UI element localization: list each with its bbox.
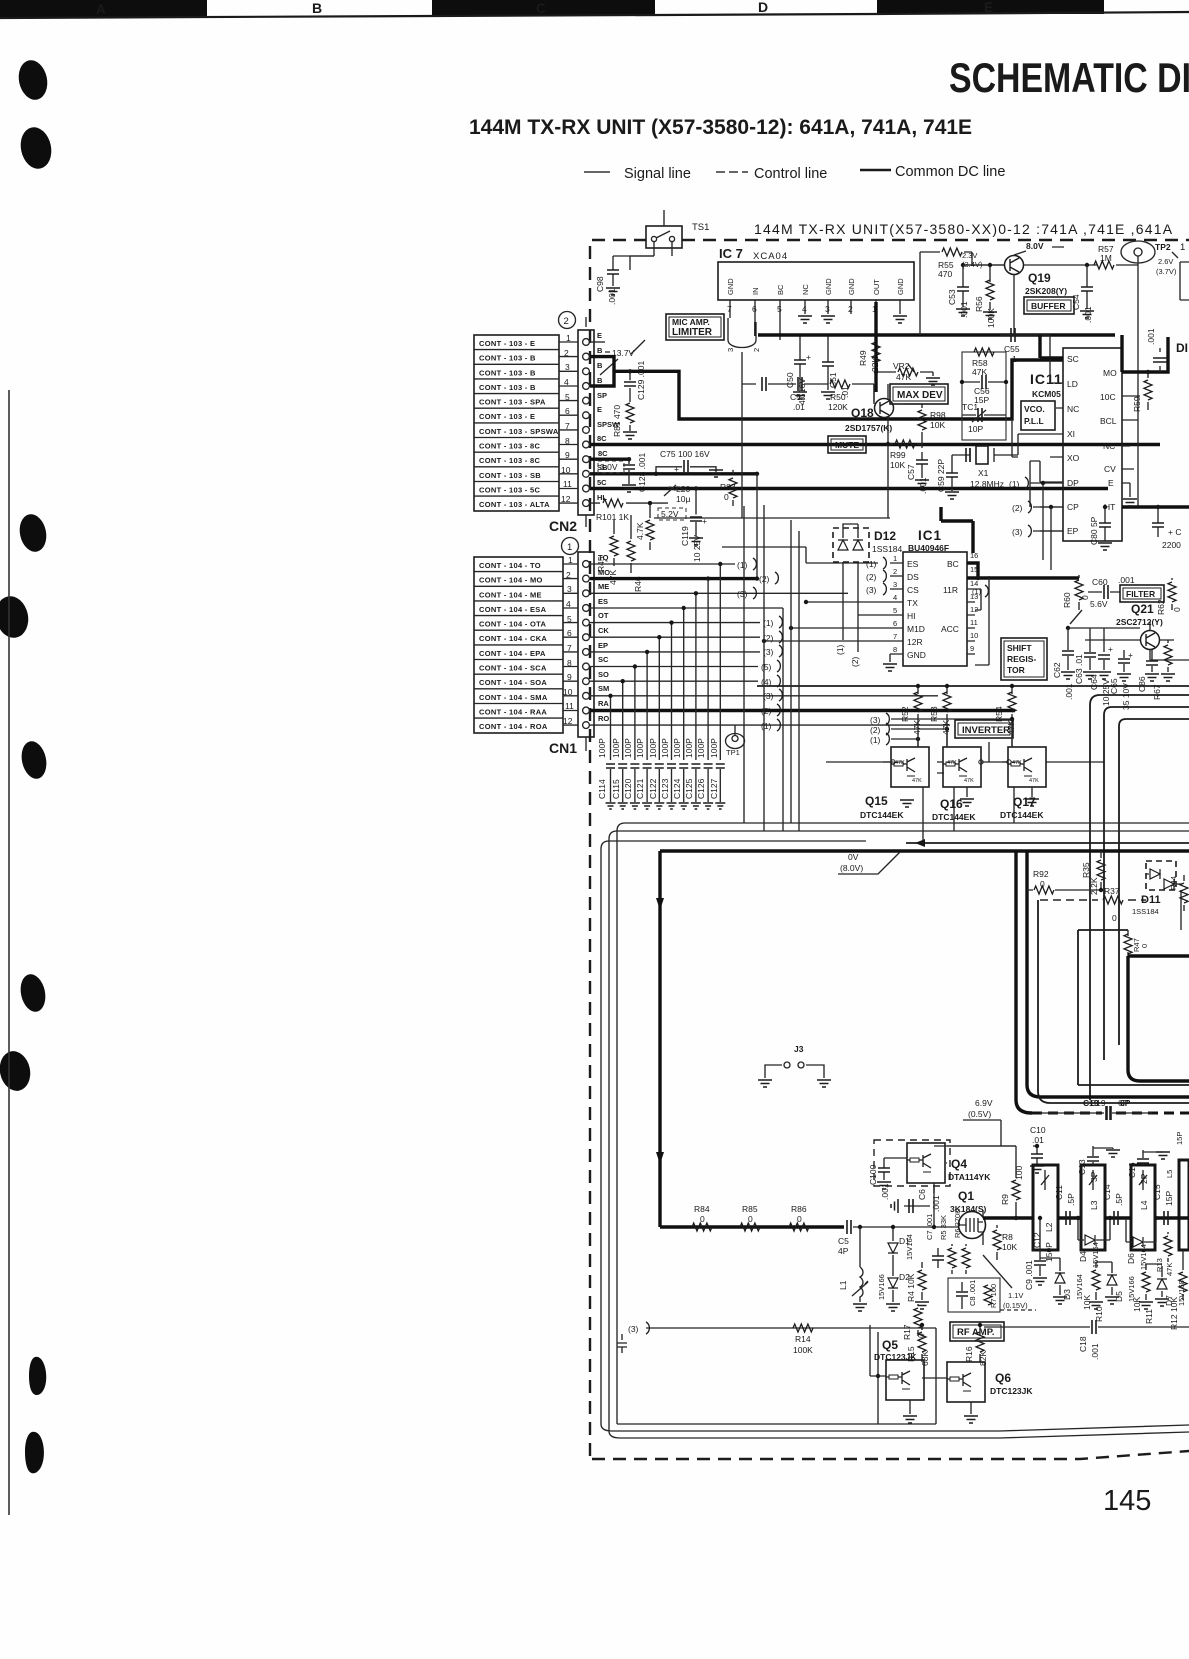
transistor Q1 — [950, 1189, 987, 1245]
svg-text:OUT: OUT — [872, 279, 881, 295]
connector CN1 pin numbers — [563, 555, 574, 726]
svg-text:IN: IN — [751, 288, 760, 296]
svg-text:CN2: CN2 — [549, 518, 577, 534]
wire Q5 Q6 links — [870, 1325, 922, 1376]
supply rail 8V — [757, 685, 1189, 687]
cut component right edge top — [1172, 242, 1189, 300]
resistor R14 — [793, 1324, 813, 1355]
svg-text:12.8MHz: 12.8MHz — [970, 479, 1004, 489]
IC PLL U11 — [1030, 348, 1122, 541]
transistor Q15 — [860, 722, 929, 820]
svg-text:INVERTER: INVERTER — [962, 725, 1010, 736]
svg-text:EP: EP — [1067, 526, 1079, 536]
svg-text:4: 4 — [893, 593, 897, 602]
svg-text:1: 1 — [1180, 242, 1185, 253]
base bias line — [646, 1328, 936, 1424]
svg-text:XI: XI — [1067, 429, 1075, 439]
svg-text:15P: 15P — [1164, 1191, 1174, 1206]
wire SC thick into pin — [1040, 335, 1063, 358]
svg-text:SP: SP — [597, 391, 607, 400]
svg-text:GND: GND — [847, 278, 856, 295]
mic coupling shape — [726, 318, 761, 352]
svg-text:Q6: Q6 — [995, 1371, 1011, 1385]
svg-text:L2: L2 — [1044, 1222, 1054, 1232]
resistor R60 — [1062, 575, 1090, 610]
svg-text:CONT - 103 - B: CONT - 103 - B — [479, 368, 536, 377]
svg-text:REGIS-: REGIS- — [1007, 654, 1036, 664]
svg-text:.5P: .5P — [1114, 1193, 1124, 1206]
svg-text:C64: C64 — [1089, 674, 1099, 690]
resistor R15 — [906, 1323, 930, 1366]
svg-text:DTA114YK: DTA114YK — [948, 1172, 991, 1182]
IC1 left pin names — [907, 559, 926, 660]
capacitor C10 — [1030, 1125, 1046, 1173]
svg-text:ES: ES — [907, 559, 919, 569]
diode D3 — [1053, 1258, 1084, 1304]
legend signal line sample — [584, 171, 610, 173]
svg-text:R98: R98 — [930, 410, 946, 420]
capacitor C59 — [936, 455, 959, 499]
resistor R46 — [627, 515, 643, 592]
svg-text:IC 7: IC 7 — [719, 246, 743, 261]
resistor R11 — [1132, 1264, 1154, 1324]
CN1 bracket terminals — [737, 558, 782, 731]
svg-text:E: E — [597, 405, 602, 414]
svg-text:0: 0 — [1040, 879, 1045, 889]
svg-text:C80 5P: C80 5P — [1089, 516, 1099, 545]
svg-text:C16: C16 — [1127, 1162, 1137, 1178]
svg-text:SM: SM — [598, 684, 609, 693]
diode D2 — [877, 1265, 910, 1311]
svg-text:R84: R84 — [694, 1204, 710, 1214]
svg-text:3: 3 — [565, 362, 570, 372]
VCO bottom dashed wall — [1032, 1112, 1189, 1115]
IC7 gnd symbols — [798, 316, 907, 323]
diode D1 — [888, 1225, 914, 1265]
svg-text:D5: D5 — [1114, 1291, 1124, 1302]
svg-text:VCO.: VCO. — [1024, 404, 1045, 414]
supply branch arrow — [906, 839, 1189, 847]
svg-text:TOR: TOR — [1007, 665, 1025, 675]
svg-text:10K: 10K — [1002, 1242, 1017, 1252]
connector CN2 pin numbers — [561, 333, 572, 504]
svg-text:C9 .001: C9 .001 — [1024, 1260, 1034, 1290]
capacitor C50 — [785, 335, 811, 405]
svg-text:Q1: Q1 — [958, 1189, 974, 1203]
svg-text:.001: .001 — [959, 301, 969, 318]
svg-text:GND: GND — [896, 278, 905, 295]
svg-text:.001: .001 — [1083, 306, 1093, 323]
control dash into Q4 — [874, 1140, 950, 1186]
main DC rail bottom run — [660, 1225, 844, 1228]
svg-text:MIC AMP.: MIC AMP. — [672, 317, 710, 327]
electrolytic 2200 right edge — [1152, 505, 1181, 550]
svg-text:R8: R8 — [1002, 1232, 1013, 1242]
resistor R6 — [953, 1209, 970, 1274]
svg-text:(8.0V): (8.0V) — [840, 863, 863, 873]
svg-text:100P: 100P — [696, 738, 706, 758]
svg-text:BCL: BCL — [1100, 416, 1117, 426]
svg-text:Q4: Q4 — [951, 1157, 967, 1171]
wire HL row12 — [590, 502, 668, 504]
wire Q15 collector drop — [922, 817, 924, 841]
svg-text:(1): (1) — [761, 721, 772, 731]
junction dots CN2 buses — [627, 369, 759, 505]
svg-text:2: 2 — [893, 567, 897, 576]
svg-text:CONT - 104 - SCA: CONT - 104 - SCA — [479, 664, 547, 673]
resistor R59 — [1132, 370, 1152, 412]
svg-text:C10: C10 — [1030, 1125, 1046, 1135]
svg-text:X1: X1 — [978, 468, 989, 478]
svg-text:L1: L1 — [838, 1280, 848, 1290]
filter tank T1 L2 — [1032, 1165, 1058, 1262]
svg-text:CP: CP — [1067, 502, 1079, 512]
svg-text:NC: NC — [1067, 404, 1079, 414]
svg-text:DI: DI — [1176, 341, 1188, 355]
svg-text:10 25V: 10 25V — [692, 535, 702, 562]
svg-text:(5): (5) — [761, 662, 772, 672]
transistor Q17 — [1000, 722, 1046, 820]
svg-text:82K: 82K — [978, 1351, 988, 1366]
resistor R84 — [692, 1204, 712, 1231]
resistor R85 — [740, 1204, 760, 1231]
transistor Q5 — [870, 1338, 924, 1423]
svg-text:+: + — [674, 464, 679, 474]
unit boundary dashed bottom — [592, 1451, 1189, 1459]
wire 5C bus row11 — [590, 487, 1108, 490]
svg-text:M1D: M1D — [907, 624, 925, 634]
svg-text:C54: C54 — [1071, 294, 1081, 310]
svg-text:TP1: TP1 — [726, 748, 740, 757]
svg-text:0: 0 — [1140, 944, 1149, 948]
svg-text:68K: 68K — [920, 1351, 930, 1366]
wire TQ row1 — [590, 563, 735, 565]
svg-text:11: 11 — [970, 618, 978, 627]
svg-text:LIMITER: LIMITER — [672, 327, 713, 338]
svg-text:RF AMP.: RF AMP. — [957, 1327, 994, 1338]
wire Q4 collector run — [946, 1146, 1016, 1163]
svg-text:C75 100 16V: C75 100 16V — [660, 449, 710, 459]
svg-text:NC: NC — [1103, 441, 1115, 451]
svg-text:100P: 100P — [672, 738, 682, 758]
capacitor C11 — [1054, 1185, 1076, 1225]
legend control line sample — [716, 171, 748, 173]
resistor R53 — [929, 684, 951, 735]
capacitor C6 — [891, 1186, 941, 1229]
svg-text:(2): (2) — [1012, 503, 1023, 513]
bracket terminals IC11 DP CP EP — [1009, 477, 1031, 537]
svg-text:C62: C62 — [1052, 662, 1062, 678]
svg-text:CV: CV — [1104, 464, 1116, 474]
svg-text:0: 0 — [797, 1214, 802, 1224]
capacitor C86 — [1137, 650, 1159, 692]
svg-text:5: 5 — [893, 606, 897, 615]
svg-text:OT: OT — [598, 611, 609, 620]
resistor R62 — [1156, 578, 1182, 615]
svg-text:R49: R49 — [858, 350, 868, 366]
wire B bus rows2-4 — [590, 357, 1063, 419]
IC11 right pin labels — [1100, 368, 1117, 512]
svg-text:3: 3 — [726, 348, 735, 352]
circled 2 — [559, 312, 576, 329]
wire XI XO to crystal — [1012, 419, 1043, 507]
wire 8C row9 — [590, 458, 629, 461]
thick wire MO pin — [1122, 335, 1168, 372]
filter tank T4 L5 cut — [1165, 1132, 1189, 1250]
diode D6 — [1126, 1237, 1152, 1270]
voltage 3.0V — [598, 461, 624, 473]
svg-text:6P: 6P — [1118, 1098, 1129, 1108]
svg-text:8C: 8C — [598, 449, 608, 458]
svg-text:.001: .001 — [607, 288, 617, 305]
svg-text:2: 2 — [752, 348, 761, 352]
svg-text:6: 6 — [567, 628, 572, 638]
transistor Q19 — [965, 256, 1098, 336]
capacitor C15 — [1152, 1184, 1174, 1225]
svg-text:15V164: 15V164 — [1139, 1244, 1148, 1270]
svg-text:100P: 100P — [623, 738, 633, 758]
filter tank T2 L3 — [1081, 1165, 1105, 1250]
resistor R44 — [1169, 875, 1188, 911]
resistor R5 — [939, 1215, 956, 1274]
resistor R47 — [1124, 930, 1149, 956]
svg-text:10K: 10K — [1132, 1297, 1142, 1312]
IC1 gnd — [883, 654, 897, 671]
svg-text:C: C — [536, 1, 546, 16]
box FILTER — [1120, 585, 1164, 602]
resistor 4.7K vertical label — [635, 503, 654, 550]
svg-text:E: E — [1108, 478, 1114, 488]
wire Q4 top — [934, 1145, 1016, 1147]
index tab bar C — [432, 0, 655, 16]
wire EP row7 — [590, 651, 760, 653]
page fold line — [8, 390, 10, 1515]
svg-text:BU40946F: BU40946F — [908, 543, 949, 553]
svg-text:GND: GND — [824, 278, 833, 295]
svg-text:C86: C86 — [1137, 676, 1147, 692]
svg-text:Q16: Q16 — [940, 797, 963, 811]
resistor R37 — [1103, 886, 1123, 923]
voltage 1.1V note — [983, 1255, 1036, 1310]
svg-text:DS: DS — [907, 572, 919, 582]
svg-text:0: 0 — [1080, 595, 1090, 600]
circled 1 — [562, 538, 579, 555]
svg-text:.001: .001 — [1064, 683, 1074, 700]
capacitor C9 — [1024, 1218, 1047, 1290]
svg-text:SC: SC — [598, 655, 609, 664]
svg-text:Q21: Q21 — [1131, 602, 1154, 616]
svg-text:Q17: Q17 — [1013, 795, 1036, 809]
svg-text:(3): (3) — [737, 589, 748, 599]
svg-text:CONT - 104 - TO: CONT - 104 - TO — [479, 561, 541, 570]
wire RA row11 — [590, 709, 1015, 712]
test point TP1 — [726, 725, 745, 757]
svg-text:C5: C5 — [838, 1236, 849, 1246]
svg-text:6.9V: 6.9V — [975, 1098, 993, 1108]
svg-text:0: 0 — [1172, 607, 1182, 612]
wire SC row8 — [590, 666, 758, 668]
wire E row1 — [589, 341, 605, 343]
svg-text:HI: HI — [907, 611, 916, 621]
box MUTE — [828, 436, 866, 453]
IC11 pin stubs left — [1040, 383, 1063, 531]
svg-text:(2): (2) — [761, 706, 772, 716]
svg-text:144M TX-RX UNIT(X57-3580-XX)0-: 144M TX-RX UNIT(X57-3580-XX)0-12 :741A ,… — [754, 221, 1173, 237]
svg-text:(3.7V): (3.7V) — [1156, 267, 1177, 276]
wire Q21 emitter rail — [1068, 628, 1189, 660]
svg-text:6: 6 — [893, 619, 897, 628]
capacitors C114-C127 100P — [597, 738, 725, 809]
svg-text:C57: C57 — [906, 464, 916, 480]
svg-text:C123: C123 — [660, 778, 670, 799]
svg-text:R44: R44 — [1169, 876, 1178, 890]
transistor Q16 — [932, 722, 981, 822]
svg-text:ACC: ACC — [941, 624, 959, 634]
svg-text:C7 .001: C7 .001 — [925, 1214, 934, 1240]
resistor R8 — [993, 1225, 1017, 1260]
capacitor C60 — [1088, 575, 1135, 599]
svg-text:(3): (3) — [866, 585, 877, 595]
control dashed R37 line — [1040, 899, 1146, 901]
svg-text:B: B — [597, 361, 603, 370]
unit boundary dashed left — [589, 246, 591, 1459]
capacitor C54 — [1071, 265, 1094, 323]
wire 8C bus row8 — [590, 443, 1160, 446]
svg-text:2200: 2200 — [1162, 540, 1181, 550]
svg-text:10C: 10C — [1100, 392, 1116, 402]
svg-text:100P: 100P — [635, 738, 645, 758]
svg-text:D: D — [758, 0, 768, 15]
svg-text:CONT - 104 - ME: CONT - 104 - ME — [479, 590, 542, 599]
box BUFFER — [1024, 297, 1074, 314]
svg-text:(3): (3) — [870, 715, 881, 725]
wire MO row2 — [590, 577, 757, 580]
svg-text:C127: C127 — [709, 778, 719, 799]
svg-text:R5 33K: R5 33K — [939, 1215, 948, 1240]
svg-text:1SS184: 1SS184 — [1132, 907, 1159, 916]
svg-text:R67: R67 — [1152, 684, 1162, 700]
resistor R12 — [1169, 1264, 1187, 1330]
capacitor C13 — [1077, 1146, 1120, 1182]
resistor R99 — [886, 440, 922, 470]
svg-text:R56: R56 — [974, 296, 984, 312]
box MAX DEV — [890, 384, 948, 404]
svg-text:120K: 120K — [828, 402, 848, 412]
svg-text:+: + — [806, 352, 811, 362]
svg-text:MUTE: MUTE — [835, 440, 859, 450]
svg-text:.001: .001 — [918, 477, 928, 494]
svg-text:R81 470: R81 470 — [612, 405, 622, 437]
svg-text:2: 2 — [564, 316, 569, 327]
svg-text:2P: 2P — [1139, 1173, 1149, 1184]
svg-text:9: 9 — [567, 672, 572, 682]
svg-text:CONT - 103 - ALTA: CONT - 103 - ALTA — [479, 500, 550, 509]
svg-text:D3: D3 — [1062, 1289, 1072, 1300]
junction dots inverter rows — [891, 717, 1014, 764]
svg-text:R16: R16 — [964, 1346, 974, 1362]
svg-text:47K: 47K — [1012, 760, 1022, 766]
svg-text:.001: .001 — [1146, 328, 1156, 345]
svg-text:0: 0 — [724, 492, 729, 502]
svg-text:1SS184: 1SS184 — [872, 544, 903, 554]
binding blob 8 — [29, 1357, 46, 1395]
capacitor C57 — [906, 452, 929, 494]
return line 3 — [601, 841, 1189, 1431]
svg-text:SC: SC — [1067, 354, 1079, 364]
resistor R67 — [1152, 640, 1175, 700]
wires inverter input rows — [826, 719, 1104, 773]
svg-text:Q5: Q5 — [882, 1338, 898, 1352]
inner screen box lid — [1078, 930, 1189, 1085]
IC1 pin numbers — [893, 551, 978, 654]
bypass cap column drops — [611, 564, 721, 760]
svg-text:DTC123JK: DTC123JK — [990, 1386, 1033, 1396]
inner screen box — [1128, 956, 1189, 1081]
IC1 pin stubs — [764, 563, 981, 654]
connector CN2 table — [474, 335, 559, 511]
svg-text:47K: 47K — [947, 760, 957, 766]
svg-text:R101 1K: R101 1K — [596, 512, 629, 522]
svg-text:R99: R99 — [890, 450, 906, 460]
svg-text:47K: 47K — [1165, 1263, 1174, 1276]
capacitor C5 — [838, 1220, 958, 1256]
svg-text:R14: R14 — [795, 1334, 811, 1344]
svg-text:CONT - 103 - 5C: CONT - 103 - 5C — [479, 486, 540, 495]
svg-text:145: 145 — [1103, 1485, 1151, 1517]
svg-text:1: 1 — [567, 542, 572, 553]
svg-text:Q15: Q15 — [865, 794, 888, 808]
voltage 8.0V — [1014, 241, 1064, 255]
svg-text:C65: C65 — [1109, 678, 1119, 694]
svg-text:B: B — [312, 0, 322, 16]
connector CN1 header strip — [563, 552, 594, 751]
VCO enclosure left thick edges — [1016, 851, 1189, 1113]
svg-text:CK: CK — [598, 626, 609, 635]
capacitor C51 — [821, 335, 850, 399]
binding blob 2 — [17, 124, 55, 171]
svg-text:47K: 47K — [1029, 778, 1039, 784]
svg-text:35 10V: 35 10V — [1121, 683, 1131, 710]
svg-text:C8 .001: C8 .001 — [968, 1280, 977, 1306]
capacitor C14 — [1102, 1184, 1124, 1225]
svg-text:SHIFT: SHIFT — [1007, 643, 1032, 653]
capacitor C52 — [762, 377, 828, 412]
box SHIFT REGISTOR — [1001, 638, 1047, 680]
binding blob 1 — [15, 58, 51, 103]
svg-text:.001: .001 — [931, 1195, 941, 1212]
resistor R35 — [1081, 851, 1105, 895]
enclosure around driver stage — [617, 1402, 936, 1424]
svg-text:10μ: 10μ — [676, 494, 690, 504]
main DC rail vertical — [658, 851, 661, 1227]
IC7 pin labels — [726, 278, 905, 295]
svg-text:6: 6 — [565, 406, 570, 416]
capacitor C64 — [1089, 628, 1113, 706]
capacitor C128 — [622, 453, 647, 492]
svg-text:C59 22P: C59 22P — [936, 459, 946, 492]
svg-text:D11: D11 — [1141, 894, 1161, 906]
svg-text:4.7K: 4.7K — [635, 522, 645, 540]
wire CK row6 — [590, 636, 760, 638]
voltage 5.6V — [1066, 599, 1108, 630]
return line 2 — [609, 831, 1189, 1438]
resistor R81 — [612, 400, 637, 439]
capacitor C19 — [1040, 1098, 1152, 1120]
thick audio bus under IC7 — [758, 302, 1115, 392]
resistor R13 — [1155, 1232, 1174, 1276]
capacitor C53 — [947, 263, 1004, 318]
svg-text:C98: C98 — [595, 276, 605, 292]
